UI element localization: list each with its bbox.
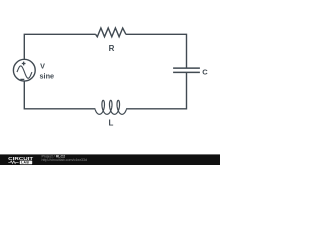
svg-text:LAB: LAB	[21, 161, 29, 165]
wire bottom-left: inductor to source bottom	[24, 81, 95, 109]
svg-text:sine: sine	[40, 71, 55, 80]
svg-text:http://circuitlab.com/c4wr33d: http://circuitlab.com/c4wr33d	[42, 158, 88, 162]
resistor R	[96, 28, 126, 37]
capacitor C bottom plate	[173, 71, 200, 73]
voltage source V1 circle	[13, 59, 35, 81]
watermark bar	[0, 154, 220, 165]
svg-text:C: C	[202, 67, 208, 76]
CircuitLab logo zigzag	[8, 161, 18, 164]
wire bottom-right: capacitor to inductor	[126, 73, 186, 109]
svg-text:R: R	[109, 44, 115, 53]
wire top-left: source top to resistor	[24, 34, 95, 59]
voltage source minus sign	[20, 78, 24, 80]
wire top-right: resistor to capacitor	[126, 34, 187, 68]
svg-text:V: V	[40, 61, 45, 70]
CircuitLab logo LAB box	[20, 161, 32, 165]
svg-text:L: L	[109, 118, 114, 127]
inductor L coil	[95, 100, 126, 114]
voltage source plus sign	[22, 62, 26, 66]
capacitor C top plate	[173, 67, 200, 69]
voltage source sine wave	[17, 66, 32, 78]
